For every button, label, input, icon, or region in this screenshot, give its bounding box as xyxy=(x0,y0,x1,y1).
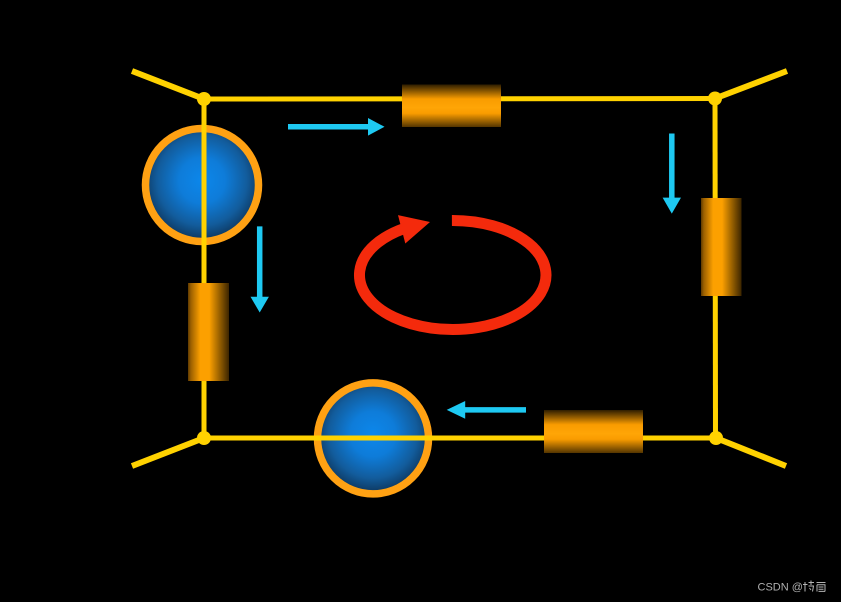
node C (bottom-left junction dot) xyxy=(197,431,211,445)
current arrow I4 (bottom, pointing left) xyxy=(447,401,526,419)
current arrow I2 (right side, pointing down) xyxy=(663,134,681,214)
wire top (node A to node B) xyxy=(204,96,715,102)
voltage source V1 (left sphere) xyxy=(146,129,259,242)
current arrow I3 (left side, pointing down) xyxy=(251,226,269,312)
watermark glyph 唐 xyxy=(817,583,826,592)
node D (bottom-right junction dot) xyxy=(709,431,723,445)
wire stub bottom-right xyxy=(716,438,786,466)
loop direction arrow (red elliptical arc) xyxy=(359,220,546,329)
voltage source V2 (bottom sphere) xyxy=(318,383,429,494)
wire bottom (node C to node D) xyxy=(204,436,716,441)
current arrow I1 (top, pointing right) xyxy=(288,118,385,136)
node A (top-left junction dot) xyxy=(197,92,211,106)
node B (top-right junction dot) xyxy=(708,92,722,106)
wire stub top-right xyxy=(715,71,787,99)
loop direction arrowhead xyxy=(398,215,430,243)
resistor R4 (bottom) xyxy=(544,410,643,453)
wire stub top-left xyxy=(132,71,204,99)
wire stub bottom-left xyxy=(132,438,204,466)
resistor R3 (left) xyxy=(188,283,229,381)
watermark glyph 将 xyxy=(803,581,814,592)
wire right (node B to node D) xyxy=(713,99,719,439)
svg-text:CSDN @: CSDN @ xyxy=(758,582,803,594)
resistor R1 (top) xyxy=(402,85,501,128)
wire left (node A to node C) xyxy=(202,99,207,438)
resistor R2 (right) xyxy=(701,198,742,296)
